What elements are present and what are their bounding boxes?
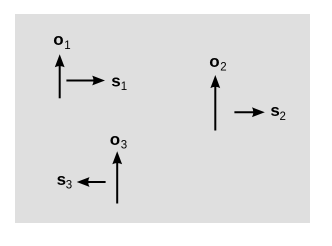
svg-text:1: 1 (64, 40, 70, 52)
svg-text:o: o (110, 130, 120, 149)
vector s1 arrow (right) (66, 76, 105, 86)
vector s2 arrow (right) (234, 107, 264, 117)
svg-text:o: o (209, 52, 219, 71)
svg-text:s: s (111, 71, 120, 90)
label s1 (111, 71, 127, 93)
svg-text:3: 3 (121, 140, 127, 152)
vector o2 arrow (up) (210, 75, 220, 131)
svg-text:1: 1 (121, 81, 127, 93)
label o2 (209, 52, 226, 74)
vector s3 arrow (left) (77, 177, 106, 187)
svg-text:s: s (270, 101, 279, 120)
svg-text:s: s (57, 170, 66, 189)
svg-text:3: 3 (66, 180, 72, 192)
svg-text:o: o (53, 30, 63, 49)
svg-text:2: 2 (280, 111, 286, 123)
label o3 (110, 130, 127, 152)
label s2 (270, 101, 286, 123)
vector o3 arrow (up) (112, 151, 122, 203)
svg-text:2: 2 (220, 62, 226, 74)
vector o1 arrow (up) (55, 54, 65, 98)
label o1 (53, 30, 70, 52)
label s3 (57, 170, 73, 192)
gray panel background (15, 14, 310, 223)
